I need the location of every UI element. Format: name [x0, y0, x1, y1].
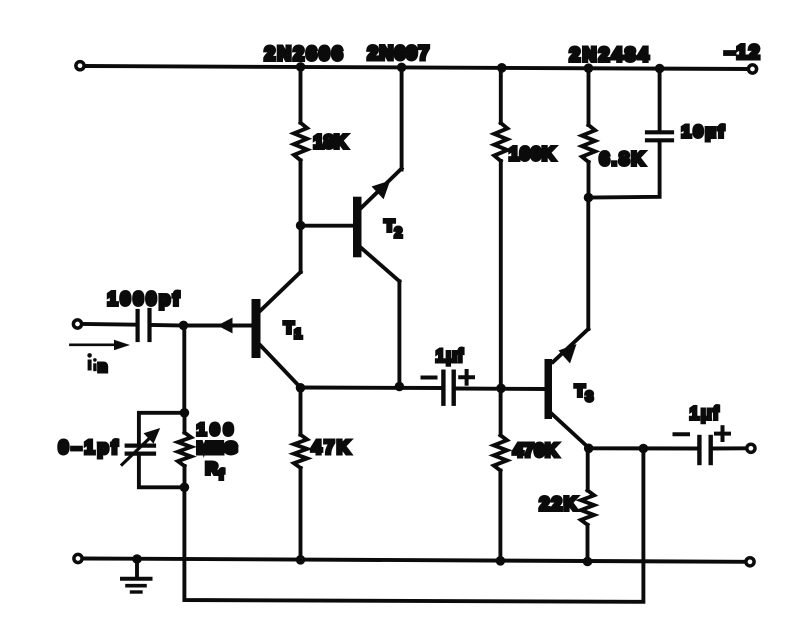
- svg-text:n: n: [98, 358, 107, 375]
- transistor T1 bar: [252, 299, 261, 358]
- svg-text:f: f: [219, 466, 224, 482]
- node rail-18K: [296, 62, 306, 72]
- terminal input left: [73, 320, 81, 328]
- terminal bottom-right: [746, 558, 754, 566]
- node feedback top: [180, 408, 190, 418]
- wire 1000pf to input node: [152, 323, 184, 327]
- label 10uf: [682, 122, 727, 141]
- node 470K-rail: [496, 556, 506, 566]
- label 47K: [312, 438, 353, 458]
- svg-text:2N2606: 2N2606: [265, 44, 345, 65]
- wire top supply rail: [85, 66, 748, 69]
- arrow variable cap diagonal: [122, 428, 160, 465]
- node 47K-rail: [296, 555, 306, 565]
- svg-text:2N697: 2N697: [368, 44, 431, 65]
- label 6.8K: [600, 149, 647, 169]
- svg-text:0–1pf: 0–1pf: [59, 438, 121, 458]
- capacitor variable 0-1pf: [127, 446, 154, 454]
- svg-text:47K: 47K: [312, 438, 353, 458]
- node T1 emitter: [296, 383, 306, 393]
- label minus output: [675, 432, 689, 436]
- svg-text:R: R: [206, 459, 218, 478]
- svg-text:10μf: 10μf: [682, 122, 727, 141]
- node rail-6.8K: [584, 63, 594, 73]
- arrow T3 collector-emitter: [559, 344, 577, 364]
- label 0-1pf: [59, 438, 121, 458]
- label 100 MEG Rf: [197, 420, 239, 482]
- node T3 emitter / 22K: [584, 444, 594, 454]
- svg-text:T: T: [385, 218, 395, 235]
- resistor 6.8K: [582, 68, 595, 197]
- wire T1 collector up to 18K node: [260, 226, 301, 312]
- wire output cap to terminal: [713, 446, 745, 450]
- node 6.8K-10uf junction: [584, 193, 594, 203]
- node input junction: [179, 321, 189, 331]
- svg-text:–12: –12: [725, 43, 762, 64]
- wire output line: [589, 446, 698, 450]
- resistor 100K: [494, 68, 507, 389]
- resistor Rf 100MEG: [178, 413, 191, 488]
- resistor 47K: [294, 388, 307, 560]
- wire T2 base: [301, 224, 354, 228]
- label T1: [284, 320, 302, 341]
- svg-text:100K: 100K: [509, 144, 556, 164]
- terminal top-left: [76, 62, 84, 70]
- svg-text:T: T: [575, 383, 585, 400]
- label plus output: [716, 427, 729, 440]
- label 100K: [509, 144, 556, 164]
- svg-text:1000pf: 1000pf: [108, 289, 182, 309]
- svg-text:MEG: MEG: [197, 439, 239, 458]
- transistor T2 bar: [353, 197, 362, 258]
- node 18K-T2base junction: [296, 221, 306, 231]
- svg-text:2: 2: [395, 225, 403, 240]
- label 2N697: [368, 44, 431, 65]
- label 1000pf: [108, 289, 182, 309]
- wire T3 collector from 6.8K node: [553, 198, 588, 363]
- node 22K-rail: [583, 557, 593, 567]
- svg-text:6.8K: 6.8K: [600, 149, 647, 169]
- svg-text:2N2484: 2N2484: [570, 45, 652, 66]
- svg-text:T: T: [284, 320, 294, 337]
- node rail-100K: [497, 63, 507, 73]
- svg-text:1μf: 1μf: [436, 346, 464, 366]
- resistor 470K: [494, 388, 507, 561]
- transistor T3 bar: [545, 359, 553, 419]
- label 22K: [540, 494, 580, 514]
- label plus coupling: [460, 371, 473, 384]
- wire T2 collector down: [359, 246, 399, 386]
- wire cap to T3 base: [456, 387, 545, 391]
- wire T1 emitter down-right: [261, 346, 301, 388]
- resistor 22K: [581, 448, 594, 561]
- label i_in: [87, 353, 107, 375]
- svg-text:3: 3: [586, 389, 594, 404]
- wire input node down to feedback top node: [182, 325, 186, 412]
- node feedback bottom: [180, 483, 190, 493]
- svg-text:1: 1: [295, 326, 302, 341]
- resistor 18K: [294, 67, 307, 226]
- terminal bottom-left: [74, 554, 82, 562]
- svg-text:470K: 470K: [513, 441, 559, 461]
- wire left branch to variable cap: [139, 413, 185, 444]
- node T3 base / divider: [496, 384, 506, 394]
- node rail-10uf: [655, 64, 665, 74]
- arrow T1 base pointing left: [217, 318, 232, 334]
- label 2N2606: [265, 44, 345, 65]
- label -12: [725, 43, 762, 64]
- label 1uf output: [690, 403, 721, 423]
- label 1uf coupling: [436, 346, 464, 366]
- terminal output: [747, 444, 755, 452]
- capacitor 1000pf: [138, 310, 150, 340]
- wire T3 emitter down-right: [552, 414, 589, 448]
- capacitor 1uf coupling: [443, 372, 453, 404]
- arrow i_in: [70, 340, 130, 350]
- node output feedback junction: [639, 444, 649, 454]
- label T2: [385, 218, 403, 240]
- wire T2 emitter diagonal to rail: [359, 67, 402, 210]
- wire variable cap bottom to feedback bottom node: [139, 456, 185, 488]
- label 470K: [513, 441, 559, 461]
- label 2N2484: [570, 45, 652, 66]
- capacitor 10uf: [589, 69, 673, 198]
- node ground attach: [132, 554, 142, 564]
- wire T1 emitter node horizontal to coupling cap: [301, 386, 442, 390]
- arrow T2 emitter: [372, 181, 391, 200]
- node T2 collector joins: [395, 382, 405, 392]
- capacitor 1uf output: [699, 437, 710, 463]
- wire T1 base from input node: [184, 324, 252, 328]
- terminal top-right -12: [748, 65, 756, 73]
- wire feedback down and across bottom: [184, 449, 643, 602]
- wire input to 1000pf: [83, 322, 136, 327]
- label minus coupling: [423, 376, 436, 380]
- ground symbol: [122, 559, 151, 592]
- wire bottom ground rail: [84, 559, 745, 562]
- label T3: [575, 383, 593, 404]
- svg-text:1μf: 1μf: [690, 403, 721, 423]
- node rail-T2: [397, 63, 407, 73]
- svg-text:22K: 22K: [540, 494, 580, 514]
- svg-text:100: 100: [197, 420, 237, 439]
- label 18K: [314, 132, 348, 152]
- svg-text:18K: 18K: [314, 132, 348, 152]
